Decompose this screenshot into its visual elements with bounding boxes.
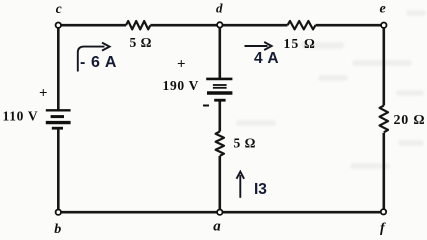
svg-text:I3: I3 <box>254 181 267 198</box>
node c <box>56 23 61 28</box>
svg-text:190 V: 190 V <box>163 78 200 93</box>
current arrow 4A <box>245 42 272 50</box>
resistor R3 5ohm vertical <box>216 132 224 156</box>
wire R1 to d <box>150 24 219 27</box>
battery V1 110V <box>46 110 71 128</box>
svg-text:5 Ω: 5 Ω <box>130 35 152 50</box>
wire b to a to f (bottom) <box>58 211 383 214</box>
svg-text:c: c <box>56 1 62 16</box>
svg-text:5 Ω: 5 Ω <box>234 135 256 150</box>
svg-text:4 A: 4 A <box>254 50 279 67</box>
svg-text:15 Ω: 15 Ω <box>284 36 317 51</box>
svg-text:e: e <box>380 2 386 17</box>
svg-text:- 6 A: - 6 A <box>80 54 117 71</box>
current arrow I3 <box>237 172 245 198</box>
svg-text:a: a <box>213 219 221 235</box>
wire d to R2 <box>220 24 288 27</box>
svg-text:20 Ω: 20 Ω <box>394 113 426 128</box>
node a <box>217 210 222 215</box>
node b <box>56 210 61 215</box>
wire d to V2 <box>219 25 222 78</box>
wire V1 to b <box>57 128 60 212</box>
svg-text:110 V: 110 V <box>3 109 39 124</box>
wire R2 to e <box>316 24 384 27</box>
wire R3 to a <box>219 156 222 212</box>
wire c to V1 <box>57 25 60 109</box>
wire V2 to R3 <box>219 101 222 132</box>
svg-text:+: + <box>177 57 186 73</box>
resistor R1 5ohm <box>126 21 150 29</box>
V2 minus sign <box>203 105 209 107</box>
node f <box>381 209 386 214</box>
node d <box>217 22 222 27</box>
svg-text:b: b <box>54 222 61 236</box>
current arrow -6A <box>78 43 110 72</box>
node e <box>381 23 386 28</box>
svg-text:+: + <box>39 86 48 102</box>
svg-text:d: d <box>216 1 223 16</box>
resistor R4 20ohm <box>380 106 388 133</box>
resistor R2 15ohm <box>288 21 316 29</box>
wire c to R1 <box>58 24 126 27</box>
wire e to R4 <box>382 25 385 105</box>
wire R4 to f <box>382 133 385 213</box>
battery V2 190V <box>206 79 232 100</box>
